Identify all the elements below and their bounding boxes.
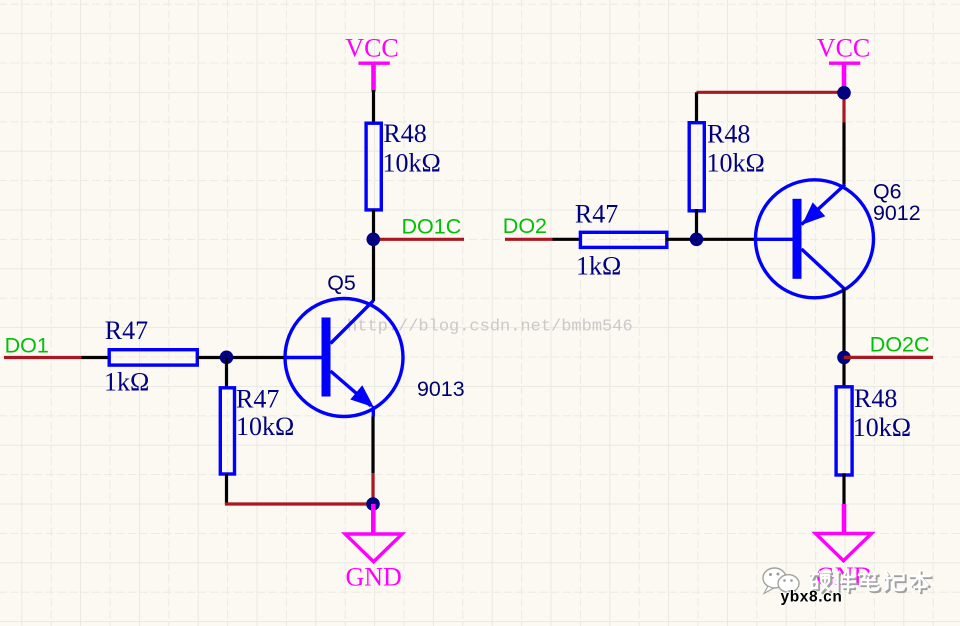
svg-text:10kΩ: 10kΩ (853, 413, 911, 442)
svg-text:R47: R47 (575, 199, 618, 228)
svg-text:9012: 9012 (873, 201, 921, 225)
svg-text:VCC: VCC (817, 34, 870, 63)
svg-text:R48: R48 (854, 384, 897, 413)
svg-text:10kΩ: 10kΩ (707, 149, 765, 178)
svg-text:R48: R48 (383, 119, 426, 148)
svg-text:R47: R47 (105, 316, 148, 345)
svg-text:Q5: Q5 (327, 271, 356, 295)
svg-text:DO1: DO1 (5, 334, 49, 358)
svg-text:GND: GND (346, 562, 402, 591)
svg-text:VCC: VCC (345, 34, 398, 63)
svg-text:DO2: DO2 (503, 214, 547, 238)
svg-text:DO1C: DO1C (402, 214, 462, 238)
svg-text:10kΩ: 10kΩ (383, 149, 441, 178)
svg-text:ybx8.cn: ybx8.cn (781, 589, 843, 606)
svg-text:1kΩ: 1kΩ (576, 252, 621, 281)
svg-text:DO2C: DO2C (870, 333, 930, 357)
svg-text:1kΩ: 1kΩ (104, 368, 149, 397)
svg-text:R48: R48 (707, 120, 750, 149)
svg-text:R47: R47 (236, 385, 279, 414)
svg-text:Q6: Q6 (873, 180, 902, 204)
svg-text:9013: 9013 (417, 377, 465, 401)
svg-text:10kΩ: 10kΩ (236, 412, 294, 441)
